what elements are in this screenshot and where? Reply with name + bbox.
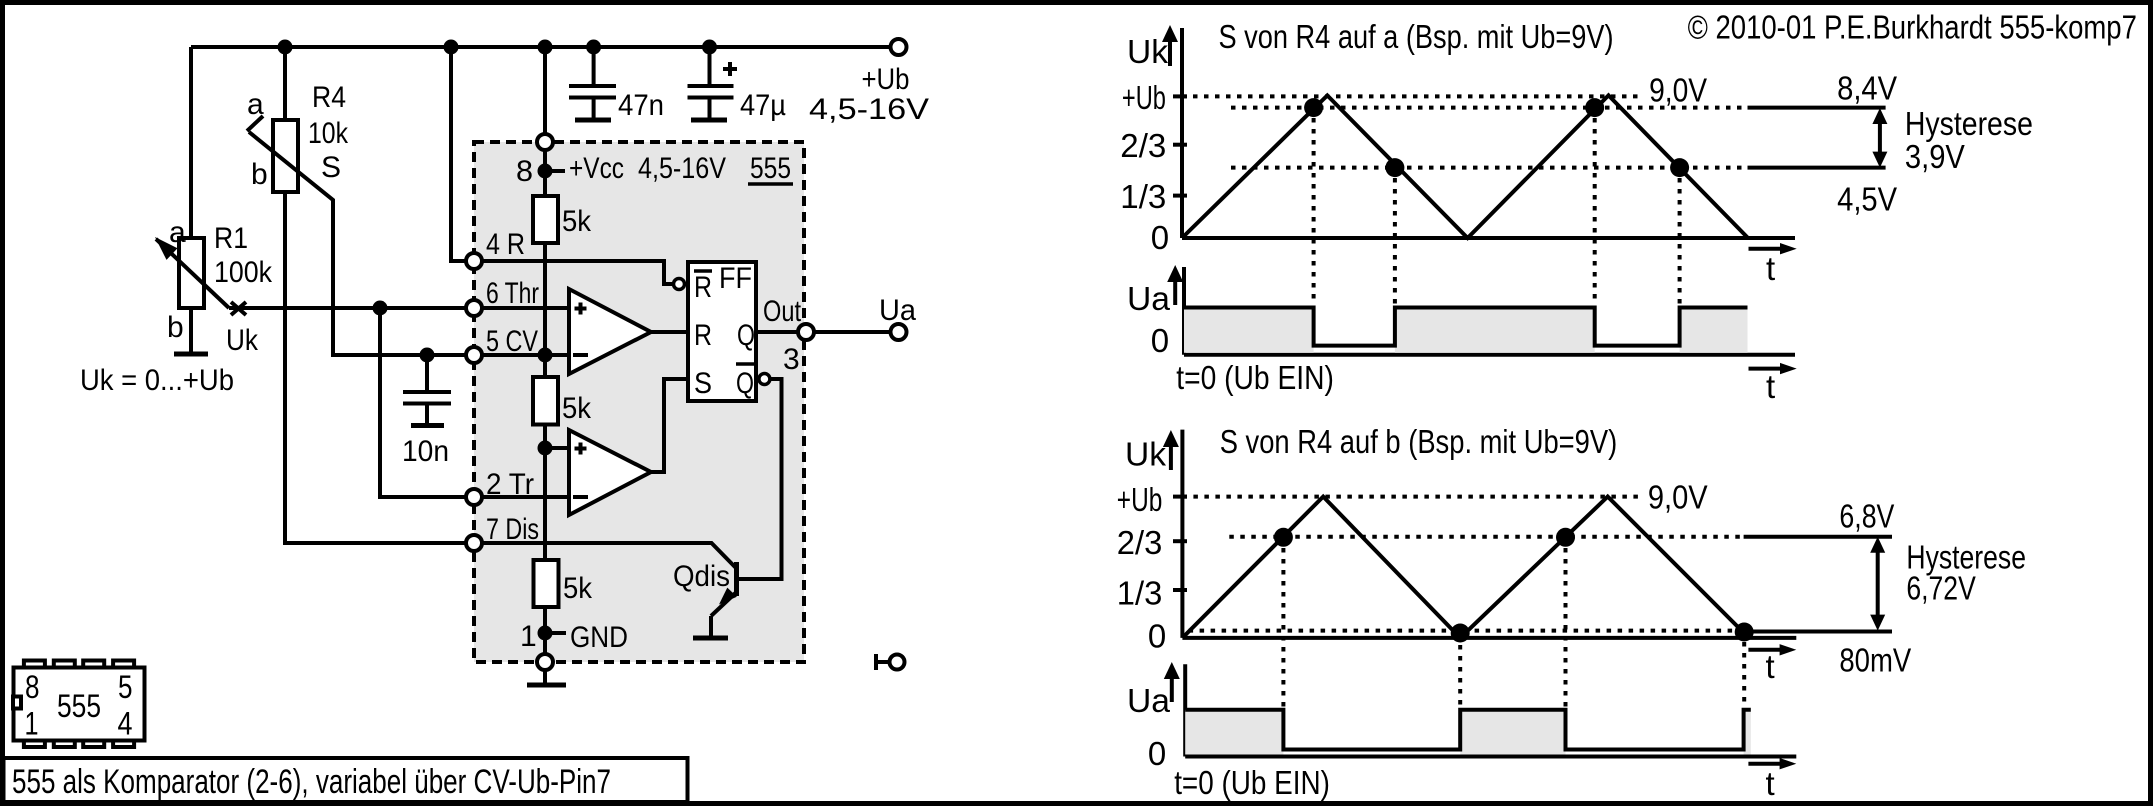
svg-text:6 Thr: 6 Thr (486, 277, 539, 310)
svg-text:b: b (251, 158, 268, 191)
svg-text:1/3: 1/3 (1117, 574, 1163, 611)
svg-text:S von R4 auf b (Bsp. mit Ub=9V: S von R4 auf b (Bsp. mit Ub=9V) (1220, 423, 1618, 460)
svg-text:5 CV: 5 CV (486, 325, 538, 358)
svg-text:8: 8 (516, 155, 533, 188)
svg-text:t: t (1766, 250, 1775, 287)
svg-text:4,5V: 4,5V (1837, 181, 1897, 218)
svg-text:555: 555 (57, 688, 101, 724)
svg-text:R4: R4 (312, 81, 346, 114)
svg-text:100k: 100k (214, 256, 273, 289)
svg-text:S von R4 auf a (Bsp. mit Ub=9V: S von R4 auf a (Bsp. mit Ub=9V) (1219, 18, 1614, 55)
svg-text:4: 4 (118, 706, 133, 742)
svg-text:47n: 47n (618, 89, 664, 122)
svg-text:S: S (321, 151, 341, 184)
svg-text:47µ: 47µ (740, 89, 786, 122)
svg-text:3: 3 (783, 343, 800, 376)
svg-text:t: t (1766, 765, 1775, 802)
svg-text:+Ub: +Ub (862, 63, 910, 96)
svg-text:t: t (1766, 368, 1775, 405)
svg-text:5k: 5k (562, 205, 592, 238)
svg-text:GND: GND (570, 621, 628, 654)
svg-text:a: a (169, 216, 186, 249)
svg-text:© 2010-01 P.E.Burkhardt 555-ko: © 2010-01 P.E.Burkhardt 555-komp7 (1688, 9, 2137, 46)
svg-text:0: 0 (1151, 322, 1169, 359)
svg-text:a: a (247, 88, 264, 121)
svg-text:9,0V: 9,0V (1649, 72, 1707, 109)
svg-text:S: S (694, 367, 712, 400)
svg-text:0: 0 (1148, 735, 1166, 772)
svg-text:Qdis: Qdis (673, 560, 730, 593)
svg-text:Q: Q (736, 367, 754, 400)
svg-text:3,9V: 3,9V (1905, 138, 1965, 175)
svg-text:9,0V: 9,0V (1648, 479, 1708, 516)
svg-text:6,8V: 6,8V (1839, 498, 1894, 535)
svg-text:+Ub: +Ub (1117, 481, 1163, 518)
svg-text:5k: 5k (563, 572, 593, 605)
svg-text:5k: 5k (562, 392, 592, 425)
svg-text:R: R (694, 271, 712, 304)
svg-text:Hysterese: Hysterese (1905, 105, 2033, 142)
svg-text:8,4V: 8,4V (1837, 70, 1897, 107)
svg-text:Q: Q (737, 319, 755, 352)
svg-text:R1: R1 (214, 222, 248, 255)
svg-text:t=0 (Ub EIN): t=0 (Ub EIN) (1174, 764, 1330, 801)
svg-text:Ua: Ua (1127, 682, 1171, 719)
svg-text:Uk: Uk (1127, 33, 1168, 70)
svg-text:1: 1 (25, 706, 39, 742)
svg-text:Ua: Ua (1127, 280, 1171, 317)
svg-text:5: 5 (118, 669, 133, 705)
svg-text:b: b (167, 311, 184, 344)
svg-text:Uk: Uk (1125, 436, 1166, 473)
svg-text:80mV: 80mV (1839, 641, 1911, 678)
svg-text:0: 0 (1148, 618, 1166, 655)
svg-text:7 Dis: 7 Dis (486, 513, 539, 546)
svg-text:555: 555 (750, 152, 791, 185)
svg-text:Ua: Ua (879, 294, 916, 327)
svg-text:10k: 10k (308, 117, 349, 150)
svg-text:10n: 10n (402, 435, 449, 468)
svg-text:+Ub: +Ub (1122, 79, 1166, 116)
svg-text:Uk = 0...+Ub: Uk = 0...+Ub (80, 364, 234, 397)
svg-text:Out: Out (763, 295, 802, 328)
svg-text:4 R: 4 R (486, 228, 525, 261)
svg-text:8: 8 (25, 669, 40, 705)
svg-text:555 als Komparator (2-6), vari: 555 als Komparator (2-6), variabel über … (12, 763, 611, 801)
svg-text:6,72V: 6,72V (1906, 570, 1975, 607)
svg-text:4,5-16V: 4,5-16V (809, 93, 929, 126)
svg-text:1/3: 1/3 (1120, 178, 1166, 215)
svg-text:Uk: Uk (226, 324, 259, 357)
svg-text:FF: FF (719, 262, 752, 295)
svg-text:1: 1 (520, 620, 537, 653)
svg-text:t=0 (Ub EIN): t=0 (Ub EIN) (1176, 359, 1334, 396)
svg-text:t: t (1766, 648, 1775, 685)
svg-text:+Vcc: +Vcc (569, 152, 624, 185)
svg-text:R: R (694, 319, 712, 352)
svg-text:4,5-16V: 4,5-16V (638, 152, 726, 185)
svg-text:2/3: 2/3 (1120, 127, 1166, 164)
svg-text:2 Tr: 2 Tr (486, 468, 534, 501)
svg-text:0: 0 (1151, 219, 1169, 256)
svg-text:2/3: 2/3 (1117, 524, 1163, 561)
